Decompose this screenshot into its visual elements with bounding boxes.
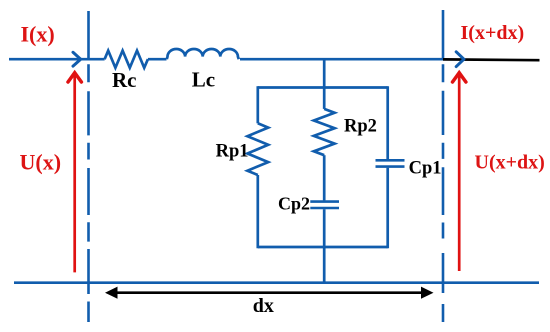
svg-text:dx: dx xyxy=(253,295,274,317)
svg-text:U(x): U(x) xyxy=(20,150,62,175)
svg-text:Cp2: Cp2 xyxy=(278,193,310,213)
svg-text:Cp1: Cp1 xyxy=(409,158,442,178)
svg-text:U(x+dx): U(x+dx) xyxy=(475,151,545,173)
svg-text:Rp2: Rp2 xyxy=(344,117,377,137)
svg-text:Lc: Lc xyxy=(192,68,215,92)
svg-text:Rp1: Rp1 xyxy=(216,142,249,162)
svg-text:I(x): I(x) xyxy=(21,22,55,47)
svg-text:I(x+dx): I(x+dx) xyxy=(461,22,525,44)
svg-text:Rc: Rc xyxy=(112,68,137,92)
